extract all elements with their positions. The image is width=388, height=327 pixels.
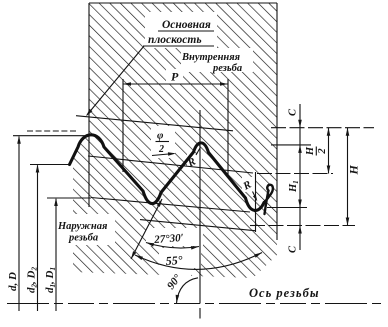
d2,D2 dimension line xyxy=(37,165,39,311)
sharp crest level dashed line xyxy=(271,127,374,129)
thread axis line xyxy=(7,303,385,305)
svg-text:27°30′: 27°30′ xyxy=(153,232,184,246)
basic plane vertical line xyxy=(88,3,90,207)
P extension line right xyxy=(227,79,229,175)
svg-text:55°: 55° xyxy=(165,253,183,268)
H/2 dimension line xyxy=(328,128,330,174)
label clearing: 27 30 xyxy=(146,228,203,246)
label clearing: naruzhnaya rezba xyxy=(54,214,115,245)
label H/2 xyxy=(305,146,328,156)
svg-text:φ: φ xyxy=(157,130,164,142)
root slant line xyxy=(91,198,250,213)
55deg arc xyxy=(135,253,262,270)
d,D extension line xyxy=(13,135,88,137)
C / H1 / C dimension line xyxy=(299,104,301,250)
svg-text:C: C xyxy=(288,108,299,116)
svg-text:2: 2 xyxy=(158,144,164,155)
svg-text:H: H xyxy=(305,146,316,156)
svg-text:d1, D1: d1, D1 xyxy=(44,267,57,293)
phi/2 leader arrow xyxy=(152,154,174,156)
crest level line xyxy=(271,144,311,146)
root level line xyxy=(267,207,307,209)
right edge of internal thread block xyxy=(276,3,278,240)
d1,D1 dimension line xyxy=(55,199,57,311)
flank extension line for angle dims xyxy=(131,199,162,259)
svg-text:плоскость: плоскость xyxy=(148,34,202,46)
svg-text:2: 2 xyxy=(317,148,328,155)
sharp root level dashed line xyxy=(250,225,355,227)
label clearing: phi/2 xyxy=(151,126,175,158)
svg-text:H: H xyxy=(347,165,361,176)
basic plane leader line xyxy=(87,46,144,115)
pitch level dashed line xyxy=(257,173,333,175)
vertical line through crest 2 down to axis xyxy=(199,110,201,304)
P extension line left xyxy=(122,79,124,172)
label clearing: P xyxy=(166,69,183,84)
sharp crest slant line xyxy=(76,116,233,131)
dashed line above d,D xyxy=(27,130,78,132)
pitch cone slant line xyxy=(88,156,253,173)
svg-text:C: C xyxy=(288,245,299,253)
svg-text:d, D: d, D xyxy=(7,272,19,291)
svg-text:Ось резьбы: Ось резьбы xyxy=(249,286,320,300)
label clearing: 90 xyxy=(161,268,191,296)
profile break curl xyxy=(264,185,273,214)
svg-text:Наружная: Наружная xyxy=(57,221,108,232)
thread profile outline xyxy=(70,135,265,211)
top border of internal thread block xyxy=(89,2,277,4)
P dimension line xyxy=(123,83,228,85)
underline ploskost xyxy=(143,45,214,47)
svg-text:резьба: резьба xyxy=(212,63,242,74)
label clearing: 55 xyxy=(159,248,201,268)
27deg30 arc xyxy=(146,243,199,249)
svg-text:P: P xyxy=(171,70,179,84)
H dimension line xyxy=(347,128,349,226)
90deg arc xyxy=(177,278,199,303)
d2,D2 extension line xyxy=(30,164,70,166)
label clearing: R root xyxy=(242,177,256,192)
hatched thread material region xyxy=(70,3,278,278)
sharp root slant line xyxy=(140,220,256,231)
d,D dimension line xyxy=(18,137,20,312)
label clearing: osnovnaya ploskost xyxy=(145,12,217,48)
svg-text:резьба: резьба xyxy=(68,233,98,244)
underline osnovnaya xyxy=(158,30,214,32)
svg-text:Основная: Основная xyxy=(162,19,211,31)
label clearing: vnutrennyaya rezba xyxy=(181,48,253,72)
svg-text:Внутренняя: Внутренняя xyxy=(181,52,241,63)
label clearing: R crest xyxy=(187,154,202,170)
d1,D1 extension line xyxy=(47,197,91,199)
vertical extension at root 2 xyxy=(255,172,257,232)
